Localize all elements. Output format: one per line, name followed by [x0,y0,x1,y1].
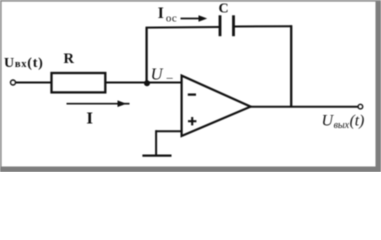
current arrow I [67,100,130,107]
svg-text:I: I [86,108,93,127]
wire feedback vertical left [145,28,147,84]
svg-text:C: C [219,2,229,17]
op-amp plus input symbol [188,117,196,125]
wire input terminal to resistor [16,82,53,84]
wire non-inverting input [156,130,182,132]
wire op-amp output [250,106,358,108]
node U- junction dot [144,80,150,86]
op-amp U1 [182,76,251,136]
output terminal circle [358,104,363,109]
svg-text:Uвх(t): Uвх(t) [4,56,44,71]
wire resistor to node [105,82,147,84]
svg-text:–: – [166,70,174,84]
wire feedback top left to capacitor [146,26,220,29]
svg-text:R: R [64,51,75,67]
svg-text:U: U [151,65,164,84]
input terminal circle [11,80,16,85]
wire feedback vertical right [290,25,292,107]
op-amp minus input symbol [188,93,196,95]
feedback current arrow [181,15,208,22]
ground [142,154,171,156]
wire node to op-amp inverting input [147,82,181,84]
wire ground stub [155,130,157,155]
wire capacitor to feedback top right [235,25,293,27]
resistor R [52,73,106,92]
capacitor C [220,15,234,36]
